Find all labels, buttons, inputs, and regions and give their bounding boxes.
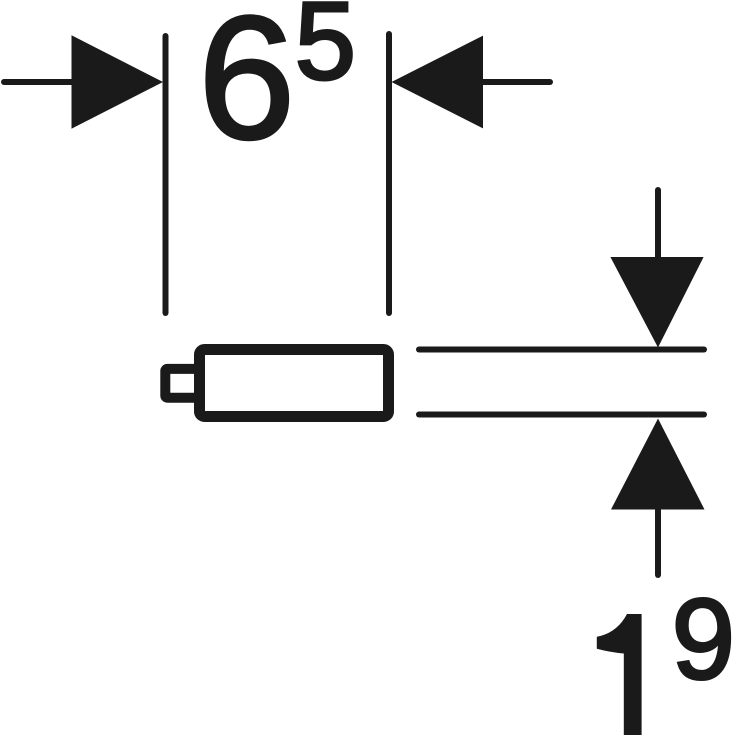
arrowhead left (pointing right at left extension line)	[72, 35, 164, 128]
arrowhead up (pointing to pipe bottom line)	[611, 419, 705, 510]
svg-text:6: 6	[198, 0, 295, 176]
dimension leader line right (horizontal tail of right arrow)	[483, 79, 550, 85]
dimension leader line left (horizontal tail of left arrow)	[4, 79, 78, 85]
pipe bottom line	[419, 412, 704, 418]
vertical dimension tail bottom (below up arrow)	[655, 510, 661, 576]
vertical dimension tail top (above down arrow)	[655, 190, 661, 257]
svg-text:5: 5	[295, 0, 356, 103]
part: main body rectangle	[200, 350, 389, 417]
arrowhead down (pointing to pipe top line)	[610, 257, 703, 348]
extension line left	[163, 36, 169, 313]
arrowhead right (pointing left at right extension line)	[392, 36, 484, 129]
pipe top line	[419, 347, 704, 353]
part: connector tab (left spigot)	[165, 369, 199, 398]
dimension value 1 (cm)	[597, 614, 642, 735]
svg-text:9: 9	[672, 577, 735, 704]
extension line right	[386, 34, 392, 313]
